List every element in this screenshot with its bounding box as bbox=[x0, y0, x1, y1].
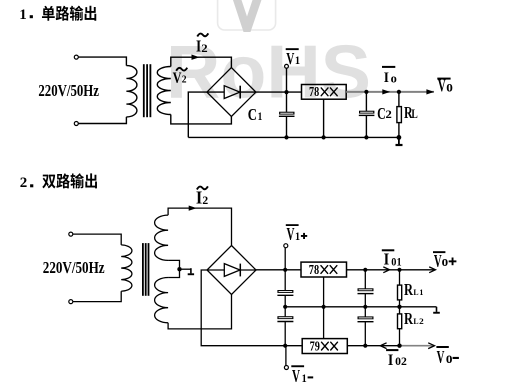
wire output (gray) U1 to Vo bbox=[346, 91, 434, 93]
svg-text:2: 2 bbox=[20, 175, 28, 191]
label V1+ bbox=[286, 224, 307, 244]
wire bridge2 left vertex to negative rail bbox=[201, 270, 302, 346]
svg-text:78: 78 bbox=[309, 262, 320, 277]
svg-text:220V/50Hz: 220V/50Hz bbox=[43, 258, 105, 277]
terminal bottom-left circuit 2 bbox=[69, 300, 73, 304]
capacitor C5 (upper, col 2) bbox=[358, 270, 374, 307]
node bottom U1 pin bbox=[322, 135, 326, 139]
svg-text:V: V bbox=[173, 70, 182, 87]
label Io2 bbox=[386, 349, 407, 369]
svg-text:C: C bbox=[248, 105, 257, 124]
svg-text:2: 2 bbox=[386, 109, 393, 121]
wire positive rail bridge2 to 78xx bbox=[240, 269, 301, 271]
svg-text:o: o bbox=[446, 350, 453, 367]
label 78xx (U2) bbox=[309, 262, 337, 277]
node RL top junction bbox=[397, 90, 401, 94]
title 2 period bbox=[30, 184, 33, 187]
label V1 bbox=[286, 48, 300, 68]
svg-text:I: I bbox=[384, 250, 390, 269]
svg-text:o: o bbox=[446, 79, 453, 96]
svg-text:220V/50Hz: 220V/50Hz bbox=[38, 81, 99, 100]
svg-text:2: 2 bbox=[201, 43, 208, 55]
arrow Vo- (thin) bbox=[428, 343, 434, 349]
svg-text:L: L bbox=[413, 317, 419, 326]
node center tap bbox=[177, 267, 181, 271]
node V1+ junction bbox=[283, 268, 287, 272]
wire center tap jog bbox=[168, 260, 179, 277]
ground (center tap) bbox=[188, 268, 194, 275]
node second cap top bbox=[363, 268, 367, 272]
svg-text:1: 1 bbox=[19, 7, 27, 23]
node bottom C2 bbox=[364, 135, 368, 139]
label V2 tilde bbox=[176, 68, 187, 71]
wire U1 ground pin bbox=[323, 99, 325, 137]
wire V1- terminal up bbox=[285, 346, 287, 366]
node bottom C1 bbox=[284, 135, 288, 139]
arrow Vo bbox=[426, 89, 434, 94]
wire primary top bbox=[78, 57, 126, 66]
ground (circuit 1) bbox=[396, 137, 403, 146]
arrow Io2 (thin, left) bbox=[380, 343, 386, 349]
bridge rectifier B2 diamond bbox=[207, 246, 256, 295]
arrow Io1 (thin) bbox=[383, 267, 389, 273]
capacitor C3 (upper, col 1) bbox=[277, 270, 293, 307]
wire secondary top to bridge bbox=[171, 57, 232, 67]
wire negative rail (bottom, circuit 1) bbox=[188, 136, 399, 138]
svg-text:1: 1 bbox=[302, 371, 307, 385]
svg-text:2: 2 bbox=[182, 75, 187, 86]
svg-text:1: 1 bbox=[295, 229, 300, 243]
terminal top-left circuit 1 bbox=[74, 55, 78, 59]
label Vo- bbox=[436, 346, 459, 367]
svg-text:V: V bbox=[287, 224, 295, 244]
transformer T1 core bbox=[144, 64, 151, 117]
svg-text:L: L bbox=[411, 107, 417, 121]
arrow I2 (circuit 1) bbox=[192, 55, 200, 60]
svg-text:V: V bbox=[292, 366, 300, 386]
svg-text:I: I bbox=[384, 70, 389, 86]
wire primary bottom (circuit 2) bbox=[73, 291, 121, 301]
svg-text:R: R bbox=[404, 309, 414, 328]
wire V1 terminal to rail bbox=[286, 68, 288, 92]
wire center tap to ground bbox=[180, 268, 191, 270]
svg-text:R: R bbox=[404, 280, 414, 299]
wire primary bottom bbox=[78, 117, 126, 124]
label Io bbox=[382, 66, 397, 86]
capacitor C1 bbox=[279, 92, 295, 137]
svg-text:78: 78 bbox=[309, 84, 319, 99]
svg-text:02: 02 bbox=[395, 355, 407, 368]
wire secondary bottom to bridge (AC return) bbox=[171, 115, 232, 124]
regulator U2 78xx box bbox=[301, 262, 347, 277]
node RL1 top bbox=[397, 268, 401, 272]
title 1 text 单路输出 bbox=[42, 6, 96, 21]
capacitor C6 (lower, col 2) bbox=[358, 307, 374, 346]
regulator U1 78xx box bbox=[302, 85, 347, 100]
terminal V1+ bbox=[284, 244, 288, 248]
svg-text:I: I bbox=[388, 350, 393, 369]
node bottom rail col2 bbox=[363, 344, 367, 348]
label V1- bbox=[291, 365, 313, 386]
terminal bottom-left circuit 1 bbox=[74, 122, 78, 126]
node bottom rail col1 bbox=[283, 344, 287, 348]
label Vo+ bbox=[433, 251, 456, 271]
arrow I2 (circuit 2) bbox=[189, 206, 197, 211]
wire bridge left vertex to negative rail bbox=[188, 92, 207, 137]
arrow Vo+ (thin) bbox=[429, 267, 435, 273]
diode D1 inside bridge 1 bbox=[207, 86, 240, 99]
title 2 text 双路输出 bbox=[42, 173, 97, 188]
bridge rectifier B1 diamond bbox=[207, 68, 256, 117]
terminal V1- bbox=[284, 366, 288, 370]
transformer T2 secondary upper winding bbox=[155, 215, 169, 260]
node mid rail col1 bbox=[283, 305, 287, 309]
label 78xx (U1) bbox=[309, 84, 337, 99]
wire negative rail gray segment bbox=[400, 345, 435, 347]
svg-text:V: V bbox=[437, 347, 445, 367]
label I2 tilde (circuit 2) bbox=[197, 186, 208, 189]
node bottom rail RL2 bbox=[397, 344, 401, 348]
node C2 top junction bbox=[364, 90, 368, 94]
node mid rail regulator pin bbox=[322, 305, 326, 309]
svg-text:V: V bbox=[438, 76, 446, 96]
resistor RL2 bbox=[398, 307, 402, 346]
wire secondary bottom to bridge (circuit 2) bbox=[168, 295, 231, 329]
node bottom RL bbox=[397, 135, 402, 140]
transformer T2 secondary lower winding bbox=[155, 278, 169, 323]
transformer T1 secondary winding bbox=[157, 67, 171, 115]
title 1 period bbox=[30, 15, 33, 18]
svg-text:L: L bbox=[413, 288, 419, 297]
svg-text:79: 79 bbox=[310, 339, 321, 354]
transformer T2 primary winding bbox=[121, 245, 132, 291]
arrow Io bbox=[382, 89, 390, 94]
node V1 junction bbox=[284, 90, 288, 94]
wire V1+ terminal down bbox=[284, 248, 286, 270]
svg-text:2: 2 bbox=[419, 317, 424, 326]
ground (middle rail) bbox=[433, 307, 440, 314]
resistor RL1 bbox=[398, 270, 402, 307]
svg-text:1: 1 bbox=[419, 288, 423, 297]
transformer T2 core bbox=[143, 243, 149, 296]
svg-text:2: 2 bbox=[202, 194, 208, 207]
wire secondary top to bridge (circuit 2) bbox=[168, 208, 231, 245]
resistor RL bbox=[397, 92, 402, 137]
terminal V1 bbox=[285, 64, 289, 68]
label 79xx (U3) bbox=[310, 339, 338, 354]
wire primary top (circuit 2) bbox=[73, 234, 121, 245]
wire negative rail U3 to Vo- bbox=[347, 345, 399, 347]
svg-text:1: 1 bbox=[295, 53, 300, 67]
svg-text:I: I bbox=[196, 188, 202, 208]
watermark RoHS logo badge bbox=[218, 0, 276, 32]
svg-text:1: 1 bbox=[258, 109, 263, 123]
label I2 tilde (circuit 1) bbox=[197, 33, 208, 36]
terminal top-left circuit 2 bbox=[69, 232, 73, 236]
diode D2 inside bridge 2 bbox=[207, 264, 240, 277]
node mid rail col2 bbox=[363, 305, 367, 309]
svg-text:V: V bbox=[286, 49, 295, 68]
wire positive rail U2 to Vo+ bbox=[347, 269, 436, 271]
wire regulator shared pin U2-U3 bbox=[323, 277, 325, 339]
capacitor C4 (lower, col 1) bbox=[277, 307, 293, 346]
wire positive rail bridge to regulator bbox=[240, 91, 301, 93]
wire middle rail (circuit 2) bbox=[285, 306, 436, 308]
svg-text:01: 01 bbox=[391, 255, 401, 269]
svg-text:C: C bbox=[377, 104, 386, 123]
svg-text:o: o bbox=[442, 254, 449, 270]
label Io1 bbox=[382, 249, 402, 268]
regulator U3 79xx box bbox=[302, 339, 347, 354]
svg-text:o: o bbox=[391, 71, 397, 85]
node mid rail RL junction bbox=[397, 305, 401, 309]
transformer T1 primary winding bbox=[126, 66, 137, 117]
label Vo bbox=[437, 76, 453, 96]
capacitor C2 bbox=[359, 92, 375, 137]
